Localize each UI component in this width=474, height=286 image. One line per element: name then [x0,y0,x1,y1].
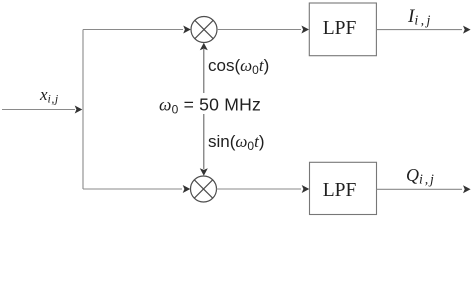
svg-text:sin(ω0t): sin(ω0t) [208,132,265,153]
mixer M2 (multiplier) [191,176,217,202]
wire: oscillator cos branch up into mixer 1 [200,43,208,93]
block LPF 2 [310,162,377,214]
wire: mixer 2 to LPF 2 [217,185,310,193]
node branch: vertical wire [82,30,84,190]
svg-text:xi,j: xi,j [39,85,59,106]
svg-text:LPF: LPF [323,18,357,39]
svg-text:cos(ω0t): cos(ω0t) [208,56,269,77]
wire: LPF 1 to output I [376,26,470,34]
block LPF 1 [309,3,376,56]
wire: branch to mixer 1 [83,26,191,34]
wire: branch to mixer 2 [83,185,190,193]
wire: LPF 2 to output Q [377,185,471,193]
svg-text:Ii,j: Ii,j [407,6,433,29]
svg-text:ω0 = 50 MHz: ω0 = 50 MHz [159,95,261,117]
wire: oscillator sin branch down into mixer 2 [200,114,208,176]
wire: mixer 1 to LPF 1 [217,26,309,34]
svg-text:LPF: LPF [323,180,357,201]
svg-text:Qi,j: Qi,j [406,165,436,188]
wire: input x to branch node [2,106,82,114]
mixer M1 (multiplier) [191,17,217,43]
